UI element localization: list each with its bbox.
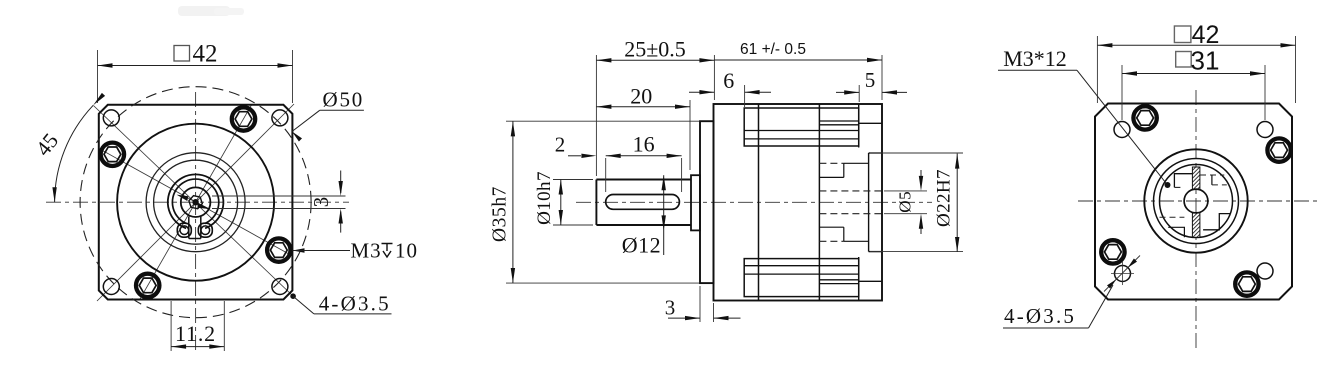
svg-text:Ø50: Ø50 [323,88,365,112]
svg-text:25±0.5: 25±0.5 [624,37,686,62]
left view vertical centerline [195,92,197,353]
left view hex socket screw right [267,238,290,261]
svg-text:20: 20 [630,84,652,109]
middle view hidden bore step lines [819,163,868,241]
label 4-dia3.5 with leader right view [1003,256,1140,329]
right view corner hole top-right [1257,122,1273,138]
svg-text:3: 3 [665,296,676,320]
dimension dia 50 leader left view [292,88,364,142]
label 4-dia3.5 with leader dot left view [290,292,391,316]
dimension dia10h7 middle view [534,171,593,225]
middle view rear screw boundary vertical [858,104,860,148]
middle view front flange plate dia35 [700,121,714,283]
middle view rear step lines [859,122,882,124]
svg-text:Ø5: Ø5 [896,191,915,213]
right view horizontal centerline [1078,200,1321,202]
left view bolt circle dia 50 dashed [80,87,311,318]
middle view gearbox body outline [714,104,883,301]
middle view hidden motor shaft bore dia5 [819,190,882,192]
middle view shaft keyway slot [606,195,680,210]
svg-text:3: 3 [309,197,333,208]
right view pilot bore circle dia22H7 [1144,149,1247,252]
left view keyway notch at bottom of ring [189,217,201,239]
svg-text:6: 6 [723,68,734,93]
label M3*12 with leader right view [998,46,1171,188]
right view vertical centerline [1195,90,1197,352]
left view center dot [193,200,198,205]
left view hex socket screw top-right [232,107,255,130]
svg-text:Ø35h7: Ø35h7 [490,186,511,242]
right view corner hole top-left [1114,122,1130,138]
left view wedge mark upper-left [177,195,189,201]
left view wedge mark lower-right [197,203,210,209]
right view clamp step lower-right [1203,214,1230,230]
left view retaining ring outer arc [168,174,224,228]
left view outer boss circle [117,124,274,281]
left view square flange outline with chamfered corners [99,105,293,300]
svg-text:11.2: 11.2 [175,321,216,346]
svg-text:31: 31 [1191,46,1220,76]
svg-text:M3: M3 [351,239,382,263]
right view square flange outline with chamfered corners [1095,104,1292,300]
dimension square 42 right view [1097,21,1295,103]
right view corner hole bottom-right [1257,263,1273,279]
dimension square 42 left view [98,41,293,104]
dimension 45 degree arc left view [31,93,105,202]
svg-text:Ø10h7: Ø10h7 [534,171,555,225]
svg-text:Ø22H7: Ø22H7 [934,169,955,227]
dimension 6 middle view [689,68,771,107]
left view center hexagon [189,196,202,209]
middle view rear pilot recess dia22 [868,153,870,252]
left view diagonal centerline BL-TR [97,104,294,301]
right view clamp step lower-left [1168,227,1184,237]
svg-text:5: 5 [865,68,876,92]
right view hex socket screw top-right [1267,138,1290,161]
svg-text:M3*12: M3*12 [1003,46,1067,71]
left view hex socket screw bottom-left [136,274,159,297]
right view clamp step upper-left [1174,174,1192,188]
right view motor shaft hole dia5 [1184,189,1208,213]
left view hex socket screw left [101,143,124,166]
right view corner hole bottom-left with center marks [1111,262,1134,285]
dimension 3 flange thickness middle view [665,286,741,322]
label M3 depth 10 with leader left view [293,239,419,263]
left view bolt centerline at -60 deg [140,105,252,299]
svg-text:61 +/- 0.5: 61 +/- 0.5 [740,41,806,58]
middle view internal wall line 2 [818,104,820,301]
left view bolt centerline at 30 deg [99,148,293,256]
right view hex socket screw bottom-right [1235,272,1258,295]
right view coupling clamp hatched slot upper [1192,167,1200,189]
left view retaining ring inner arc [172,179,218,224]
left view keyway slot projection lines [212,195,346,197]
left view circle B [146,153,245,252]
dimension 25 plus minus 0.5 middle view [596,37,714,177]
left view corner hole top-left [103,110,119,126]
svg-text:2: 2 [555,133,566,157]
svg-text:42: 42 [193,41,218,68]
middle view top screw pocket band [744,108,859,146]
left view retaining ring left ear [177,223,191,237]
right view hex socket screw top-left [1133,106,1156,129]
svg-text:4-Ø3.5: 4-Ø3.5 [319,292,391,316]
dimension 11.2 left view [171,301,224,351]
svg-text:16: 16 [633,132,655,157]
dimension 61 plus minus 0.5 middle view sans font [714,41,882,100]
left view shaft circle [181,187,211,217]
left view circle C [154,160,238,244]
dimension square 31 right view [1122,46,1265,121]
svg-text:Ø12: Ø12 [622,233,661,258]
middle view bottom screw pocket band [744,259,859,297]
left view horizontal centerline [46,201,349,203]
right view coupling clamp hatched slot lower [1192,213,1200,237]
svg-text:4-Ø3.5: 4-Ø3.5 [1004,304,1076,328]
dimension 20 middle view [596,84,690,171]
dimension 16 middle view [606,132,682,193]
dimension dia5 middle view [884,170,927,234]
middle view output shaft [596,180,691,226]
right view clamp step upper-right [1200,174,1224,176]
dimension dia12 middle view [622,175,666,257]
left view retaining ring right ear [198,223,212,237]
left view diagonal centerline TL-BR [93,106,293,297]
left view corner hole top-right [272,110,288,126]
middle view internal wall line 1 [758,104,760,301]
right view coupling circle [1160,165,1233,238]
left view: faint erased watermark [178,6,230,16]
left view corner hole bottom-right [272,279,288,295]
dimension dia22H7 middle view [870,153,963,252]
dimension 2 middle view [555,133,597,159]
right view inner step circle [1154,159,1239,244]
dimension 5 middle view [836,68,907,102]
dimension 3 keyway width left view [309,171,343,233]
dimension dia35h7 middle view [490,121,700,283]
left view corner hole bottom-left [103,279,119,295]
middle view shaft collar dia12 [691,175,700,230]
middle view horizontal centerline [576,201,932,203]
svg-text:10: 10 [395,239,418,263]
right view hex socket screw bottom-left [1101,240,1124,263]
